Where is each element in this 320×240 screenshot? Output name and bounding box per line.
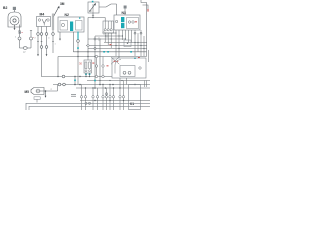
wire bottom bus y48 left pair xyxy=(20,47,32,49)
right edge short pair xyxy=(144,81,146,88)
mesh horizontal y39 xyxy=(88,38,126,40)
red segment top right xyxy=(148,9,149,12)
red dash mesh xyxy=(110,43,112,46)
wire N2 leg x73.3 xyxy=(72,32,74,52)
teal tick y58 xyxy=(134,58,136,59)
bus y80.5 xyxy=(87,80,150,82)
circles in I xyxy=(123,71,126,74)
connector circles on box line xyxy=(85,102,87,104)
connector block below M5 xyxy=(34,97,40,100)
wire x126.5 down xyxy=(126,78,128,85)
bottom verticals xyxy=(82,78,124,110)
circle on leg2 lower xyxy=(40,46,43,49)
wire x95 down xyxy=(94,36,96,88)
circle right in I xyxy=(139,67,141,69)
wire x57.2 down from bus56.5 xyxy=(57,57,59,77)
N3 red dash xyxy=(135,20,137,23)
svg-text:N3: N3 xyxy=(122,11,126,15)
N3 sub box right xyxy=(127,18,139,29)
wire N2 leg x60 xyxy=(59,32,61,39)
connector ladder box E xyxy=(103,21,114,33)
fuse oval on y48 xyxy=(23,47,27,50)
switch circles on bus84 xyxy=(58,83,61,86)
wire rheostat right jog xyxy=(99,4,117,7)
red dash right of teal tick xyxy=(138,56,140,59)
arrowhead leg3 xyxy=(46,54,48,56)
wire leg1 lower xyxy=(37,35,39,54)
relay M4 inner mark xyxy=(43,24,45,26)
svg-text:3M: 3M xyxy=(60,2,65,6)
circle on x53 xyxy=(52,33,55,36)
wire horn top stub xyxy=(13,10,15,12)
mesh verticals right cluster xyxy=(134,30,136,56)
tick on leg2 xyxy=(41,41,43,43)
wire horn right terminal down xyxy=(19,25,21,32)
horn B2 coil outer circle xyxy=(10,16,19,25)
wire x88 long down xyxy=(87,18,89,61)
wire top right staircase 2 xyxy=(143,5,149,9)
mesh horizontal y48.5 xyxy=(88,48,147,50)
connector square x125 xyxy=(124,6,127,9)
wire M4 leg1 xyxy=(37,27,39,33)
relay H legs xyxy=(85,73,87,77)
tick on rheostat drop xyxy=(92,14,94,16)
red mark right of connector xyxy=(22,32,23,33)
teal dot x95 y80.5 xyxy=(94,80,96,82)
mesh circles xyxy=(103,32,105,34)
wire vertical x19.5 xyxy=(19,34,21,48)
rheostat arrowhead xyxy=(94,3,96,6)
arrow below M5 wire xyxy=(45,91,47,96)
wire M5 right xyxy=(36,90,58,92)
N3 teal bar xyxy=(121,17,124,22)
wire horn left terminal down with arrow xyxy=(14,25,16,29)
wire leg2 mid xyxy=(41,35,43,46)
bus y56.5 xyxy=(58,56,147,58)
connector square above horn xyxy=(13,7,16,10)
wire up to bus84 xyxy=(57,85,59,92)
wire x75 down xyxy=(74,77,76,85)
arrowhead horn left terminal xyxy=(14,28,16,30)
ladder wires xyxy=(104,21,106,29)
tick on leg1 xyxy=(37,41,39,43)
wire M4 leg2 (x41.5 long to bus) xyxy=(41,27,43,33)
bus y51.8 xyxy=(73,51,146,53)
ladder circles xyxy=(104,29,106,31)
wire x100 down xyxy=(99,39,101,85)
wire N3 top feed x117 xyxy=(116,4,118,15)
bus y84 xyxy=(53,84,150,86)
rheostat inner circle xyxy=(89,10,91,12)
teal tick x75 xyxy=(74,80,76,82)
mesh horizontal y42.5 xyxy=(104,42,147,44)
svg-text:N2: N2 xyxy=(65,13,69,17)
wire N2 leg x78 teal segment xyxy=(77,32,79,42)
horn B2 body xyxy=(8,12,21,27)
wire right edge down xyxy=(146,15,148,57)
mesh horizontal y36 xyxy=(95,35,123,37)
wire leg2 continues to bus xyxy=(42,48,64,76)
relay M4 inner circle xyxy=(38,19,40,21)
bus y88 xyxy=(76,87,150,89)
wire below connector block xyxy=(36,99,38,102)
svg-text:K1: K1 xyxy=(130,102,134,106)
teal dots on bus51.8 xyxy=(103,51,105,53)
relay H internals xyxy=(85,62,87,69)
rheostat box top xyxy=(88,2,99,13)
wire M4 leg3 xyxy=(46,27,48,33)
control unit N3 box xyxy=(114,15,140,30)
teal dot on x78 xyxy=(77,47,79,49)
circle on leg2 xyxy=(40,33,43,36)
junction dots mesh xyxy=(111,32,145,49)
relay H teal ticks xyxy=(85,73,87,75)
junction dot M5 wire xyxy=(45,90,47,92)
wire top right staircase xyxy=(141,0,147,15)
rheostat inner vertical xyxy=(92,4,94,13)
circle on leg3 xyxy=(45,33,48,36)
mesh horizontal y33 xyxy=(104,32,116,34)
M5 inner circle xyxy=(36,89,40,93)
N2 teal dot top right xyxy=(79,18,80,19)
svg-text:B2: B2 xyxy=(3,6,7,10)
wire leg3 lower xyxy=(46,35,48,46)
wire N2 leg x78 down xyxy=(77,41,79,85)
relay M4 inner right circle xyxy=(47,19,49,21)
junction dots bus76 xyxy=(57,76,90,77)
equals marks xyxy=(71,93,76,95)
svg-text:M5: M5 xyxy=(25,90,30,94)
diagonal arrow to 3M xyxy=(54,7,59,16)
N2 teal bar xyxy=(70,22,73,32)
relay H box xyxy=(84,60,92,73)
bottom inner box xyxy=(29,106,150,110)
junction dots buses xyxy=(77,51,95,57)
big box I right xyxy=(112,58,146,78)
N2 right sub box xyxy=(76,21,83,31)
circles pair right on bus76 xyxy=(95,75,97,77)
circle on bus76 xyxy=(62,75,65,78)
junction dot x93 xyxy=(92,17,93,18)
arrowhead leg1 xyxy=(37,54,39,56)
wire x53 to bus56 xyxy=(52,30,54,53)
horn B2 coil inner circle xyxy=(13,19,16,22)
verticals between buses xyxy=(96,57,98,77)
sub box I xyxy=(120,66,135,77)
bus y100.5 xyxy=(80,100,150,102)
wire below connector xyxy=(124,9,126,16)
wire into ladder box xyxy=(104,18,106,22)
circle on leg1 xyxy=(37,33,40,36)
connector circle on x31 xyxy=(30,37,33,40)
tick top x31 xyxy=(30,30,32,32)
control unit N2 box xyxy=(58,17,84,32)
box K bottom right xyxy=(129,85,141,110)
wire leg3 end xyxy=(46,48,48,54)
wire right edge short xyxy=(148,50,150,62)
rheostat diagonal xyxy=(90,4,96,11)
wire pair x52-53.5 down xyxy=(51,14,53,31)
arrowhead 3M xyxy=(57,6,59,9)
N3 left circle xyxy=(115,20,117,22)
connector on horn right wire xyxy=(18,30,21,32)
small box in mesh xyxy=(124,40,131,47)
relay M4 V contact xyxy=(42,19,46,24)
arrowhead x60 xyxy=(59,39,61,41)
mesh verticals left cluster xyxy=(104,33,106,42)
connector circle on x19.5 xyxy=(18,37,21,40)
red label I xyxy=(114,60,116,63)
bottom outer box xyxy=(26,103,150,110)
bottom connector circles row xyxy=(80,93,124,98)
N3 circles xyxy=(128,21,130,23)
N2 left sub box xyxy=(60,21,68,31)
teal dot top of rheostat xyxy=(92,1,94,3)
mesh diagonals xyxy=(111,57,119,64)
wire rheostat bottom xyxy=(92,13,94,18)
junction dots bus80.5 xyxy=(99,80,122,81)
bus y76 xyxy=(63,76,112,78)
circle on leg3 lower xyxy=(45,46,48,49)
junction dots buses bottom xyxy=(74,84,136,102)
svg-text:M4: M4 xyxy=(40,12,45,16)
wire y17.5 horizontal xyxy=(88,17,105,19)
wire vertical x31 xyxy=(30,31,32,49)
mesh horizontal y45.5 xyxy=(86,45,147,47)
component M5 bottom left xyxy=(31,88,44,95)
N2 sub circle xyxy=(61,23,64,26)
arc wire in I box xyxy=(115,60,121,74)
circle on x78 xyxy=(77,40,80,43)
relay box M4 xyxy=(37,17,51,27)
